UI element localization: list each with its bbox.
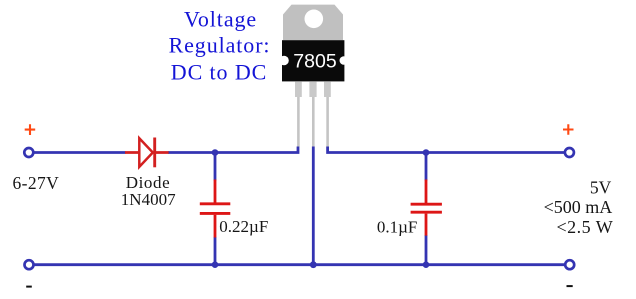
capacitor C1 bottom lead: [214, 215, 217, 238]
diode D1 triangle: [139, 138, 153, 167]
left notch: [279, 56, 289, 66]
plus mark output: [563, 124, 574, 135]
capacitor C1 top lead: [214, 180, 217, 203]
wire: C2 bottom lead: [425, 235, 428, 265]
capacitor C2 top lead: [425, 180, 428, 204]
wire: C2 top lead: [425, 153, 428, 181]
svg-text:1N4007: 1N4007: [121, 190, 176, 209]
terminal output +: [565, 148, 574, 157]
svg-text:7805: 7805: [293, 51, 337, 73]
node C junction: [212, 261, 219, 268]
wire: C1 top lead: [214, 153, 217, 181]
capacitor C1 plates: [200, 204, 231, 214]
svg-text:6-27V: 6-27V: [13, 173, 60, 193]
node B junction: [423, 149, 430, 156]
wire: pin 3 elbow to output terminal: [328, 147, 564, 153]
node E junction: [423, 261, 430, 268]
pin 2 stub: [309, 81, 316, 97]
wire: C1 bottom lead: [214, 237, 217, 265]
pin 3 lead: [326, 97, 329, 147]
svg-text:<2.5 W: <2.5 W: [556, 217, 613, 237]
regulator body: [282, 40, 344, 81]
pin 2 lead: [312, 97, 315, 147]
svg-text:0.22µF: 0.22µF: [219, 217, 268, 236]
svg-text:5V: 5V: [590, 178, 612, 198]
node D junction: [310, 261, 317, 268]
pin 1 lead: [297, 97, 300, 147]
terminal input +: [24, 148, 33, 157]
wire: pin 2 down to ground rail: [312, 147, 315, 265]
wire: ground rail: [34, 263, 565, 266]
plus mark input: [25, 124, 36, 135]
diode D1 cathode bar: [153, 138, 156, 168]
wire: diode to pin 1 elbow: [168, 147, 298, 153]
node A junction: [212, 149, 219, 156]
mounting hole: [305, 9, 324, 28]
minus mark input: [26, 286, 32, 288]
terminal input -: [25, 260, 34, 269]
title "Voltage Regulator: DC to DC": [169, 6, 271, 84]
svg-text:Regulator:: Regulator:: [169, 33, 271, 58]
terminal output -: [565, 260, 574, 269]
regulator U1 7805 package tab: [283, 5, 343, 41]
svg-text:Voltage: Voltage: [184, 6, 257, 31]
pin 1 stub: [295, 81, 302, 97]
svg-text:DC to DC: DC to DC: [171, 59, 267, 84]
capacitor C2 plates: [411, 204, 442, 212]
svg-text:<500 mA: <500 mA: [544, 197, 613, 217]
svg-text:0.1µF: 0.1µF: [377, 218, 418, 237]
wire: input rail terminal to diode: [34, 151, 126, 154]
diode D1 leads: [125, 151, 169, 154]
capacitor C2 bottom lead: [425, 214, 428, 236]
pin 3 stub: [324, 81, 331, 97]
right notch: [340, 56, 349, 65]
minus mark output: [567, 285, 573, 287]
